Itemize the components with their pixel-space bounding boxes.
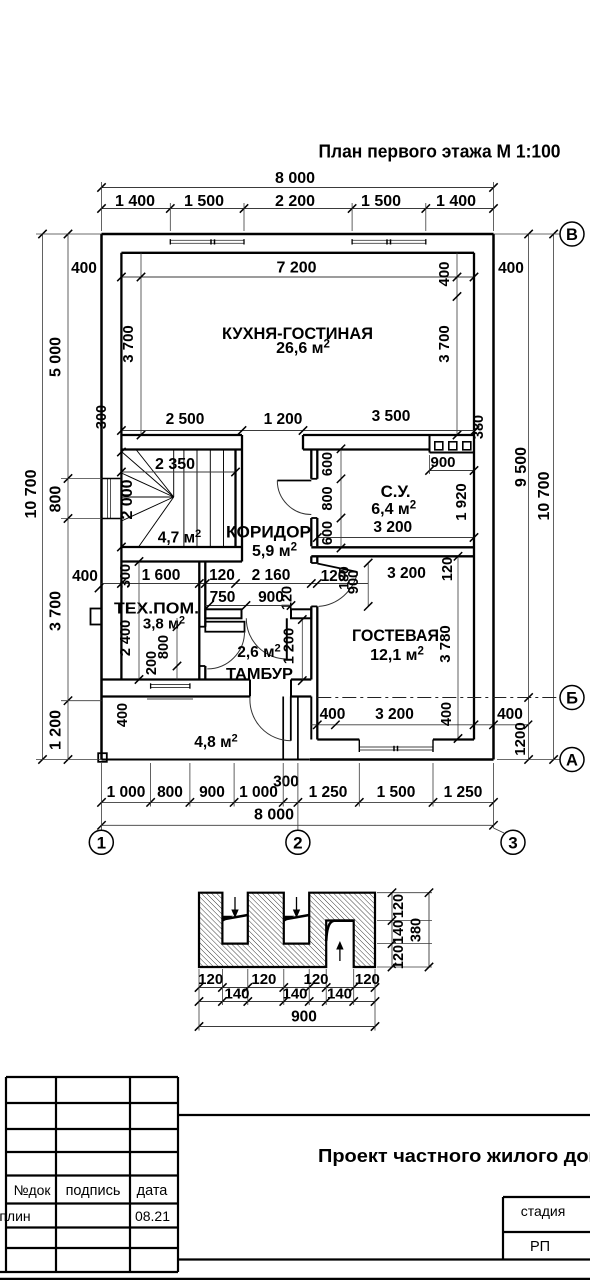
svg-text:900: 900 <box>199 784 225 801</box>
svg-text:400: 400 <box>320 706 346 723</box>
kitchen width dim 7200 <box>121 276 474 278</box>
tambour door swing arc <box>246 618 287 659</box>
vent square 3 <box>463 442 471 450</box>
svg-text:1 250: 1 250 <box>309 784 348 801</box>
window guest room (1500) <box>359 746 433 748</box>
porch corner column marker <box>98 753 107 762</box>
bottom wall under guest room <box>310 758 494 761</box>
outer left wall <box>100 234 103 760</box>
svg-text:120: 120 <box>391 945 407 969</box>
svg-text:1 000: 1 000 <box>107 784 146 801</box>
vent square 2 <box>449 442 457 450</box>
tambour top wall left piece <box>205 609 241 618</box>
svg-text:900: 900 <box>291 1009 317 1026</box>
svg-text:400: 400 <box>115 703 131 727</box>
svg-text:6,4 м2: 6,4 м2 <box>371 499 416 518</box>
svg-text:1 400: 1 400 <box>115 193 155 210</box>
detail dim 380 <box>428 893 430 967</box>
SU door swing arc <box>277 481 311 515</box>
svg-text:План первого этажа М 1:100: План первого этажа М 1:100 <box>319 142 561 162</box>
svg-text:180: 180 <box>336 566 352 590</box>
svg-text:300: 300 <box>118 564 134 588</box>
svg-text:дата: дата <box>137 1183 169 1199</box>
svg-text:600: 600 <box>320 452 336 476</box>
svg-text:1 250: 1 250 <box>444 784 483 801</box>
bottom chain 8000 <box>102 824 494 826</box>
right outer chain 10700 <box>553 234 555 760</box>
top extension lines <box>101 182 103 231</box>
svg-text:2: 2 <box>293 833 302 852</box>
axis circle 2 <box>286 830 310 854</box>
svg-text:380: 380 <box>409 918 425 942</box>
guest bottom chain 400/3200/400 <box>311 724 528 726</box>
partition below kitchen, right segment <box>303 434 430 436</box>
bottom axis extensions <box>101 807 103 831</box>
chain row 750/900 <box>205 605 291 607</box>
svg-text:120: 120 <box>391 894 407 918</box>
window top-left (1500) <box>170 239 244 241</box>
wall between corridor/tambour and SU/guest rooms <box>310 450 312 479</box>
svg-text:2 160: 2 160 <box>252 567 291 584</box>
svg-text:2 400: 2 400 <box>118 620 134 656</box>
svg-text:140: 140 <box>282 986 307 1003</box>
svg-text:750: 750 <box>210 589 236 606</box>
detail channel 1 duct liner and arrow <box>222 915 247 920</box>
svg-text:380: 380 <box>471 415 487 439</box>
svg-text:1 500: 1 500 <box>361 193 401 210</box>
svg-text:3 700: 3 700 <box>48 591 65 631</box>
svg-text:8 000: 8 000 <box>275 170 315 187</box>
detail right dims 120/140/120 <box>377 892 432 894</box>
svg-text:2,6 м2: 2,6 м2 <box>237 643 281 661</box>
svg-text:120: 120 <box>198 971 223 988</box>
SU door leaf <box>277 480 311 482</box>
axis line V <box>494 233 561 235</box>
svg-text:800: 800 <box>157 784 183 801</box>
svg-text:120: 120 <box>209 567 235 584</box>
left outer chain 10700 <box>42 234 44 760</box>
staircase treads <box>183 450 185 548</box>
outer top wall <box>102 233 494 236</box>
svg-text:1200: 1200 <box>512 722 529 755</box>
svg-text:1 600: 1 600 <box>142 567 181 584</box>
svg-text:1 500: 1 500 <box>377 784 416 801</box>
svg-text:10 700: 10 700 <box>23 469 40 518</box>
svg-text:1 200: 1 200 <box>264 411 303 428</box>
axis circle 1 <box>89 830 113 854</box>
detail dim rows bottom <box>199 987 375 989</box>
svg-text:А: А <box>566 752 578 770</box>
guest room door swing arc <box>319 572 358 606</box>
svg-text:стадия: стадия <box>521 1203 566 1219</box>
svg-text:300: 300 <box>94 405 110 429</box>
axis line A <box>497 759 561 761</box>
svg-text:120: 120 <box>251 971 276 988</box>
tech room partition (right wall) <box>198 562 200 680</box>
staircase winder rays <box>121 452 173 498</box>
partition below kitchen, left segment <box>121 434 242 436</box>
title block grid <box>6 1076 178 1078</box>
svg-text:400: 400 <box>439 702 455 726</box>
svg-text:400: 400 <box>436 261 453 286</box>
front entrance door swing arc <box>250 697 291 741</box>
svg-text:№док: №док <box>13 1182 51 1198</box>
svg-text:9 500: 9 500 <box>513 447 530 487</box>
svg-text:1 400: 1 400 <box>436 193 476 210</box>
svg-text:800: 800 <box>48 486 65 513</box>
svg-text:5,9 м2: 5,9 м2 <box>252 541 297 560</box>
tech room door leaf (open against wall) <box>205 622 244 632</box>
axis circle A <box>560 748 584 772</box>
svg-text:140: 140 <box>224 986 249 1003</box>
detail dim 900 <box>199 1026 375 1028</box>
svg-text:120: 120 <box>440 557 456 581</box>
kitchen height dims right <box>456 253 458 435</box>
svg-text:КОРИДОР: КОРИДОР <box>226 524 311 542</box>
tambour door leaf <box>286 618 288 659</box>
svg-text:2 000: 2 000 <box>119 479 136 519</box>
SU bottom partition <box>311 546 474 548</box>
right chain 9500/1200 <box>528 234 530 760</box>
svg-text:3 700: 3 700 <box>120 325 137 363</box>
svg-text:1: 1 <box>97 833 106 852</box>
porch outline <box>102 759 310 761</box>
window left wall (800) staircase <box>107 479 109 519</box>
axis circle B <box>560 686 584 710</box>
svg-text:1 200: 1 200 <box>48 710 65 750</box>
svg-text:3: 3 <box>508 833 517 852</box>
svg-text:200: 200 <box>144 651 160 675</box>
svg-text:08.21: 08.21 <box>135 1208 170 1224</box>
svg-text:1 920: 1 920 <box>453 483 470 521</box>
svg-text:3 200: 3 200 <box>387 565 426 582</box>
dim 900 under vent block <box>430 470 475 472</box>
top dim chain 8000 <box>102 187 494 189</box>
bottom extension lines <box>101 763 103 807</box>
left extension lines <box>36 233 102 235</box>
svg-text:800: 800 <box>320 486 336 510</box>
svg-text:3 500: 3 500 <box>372 408 411 425</box>
top dim chain 1400/1500/2200/1500/1400 <box>102 208 494 210</box>
axis circle V <box>560 222 584 246</box>
SU left wall chain 600/800/600 <box>340 449 342 548</box>
flue pilaster on left wall <box>91 609 102 625</box>
detail channel 2 duct liner and arrow <box>284 915 309 920</box>
stair dim 2000 <box>117 448 125 456</box>
svg-text:400: 400 <box>72 568 98 585</box>
svg-text:С.У.: С.У. <box>381 483 411 501</box>
svg-text:3 200: 3 200 <box>373 519 412 536</box>
svg-text:3 780: 3 780 <box>437 625 454 663</box>
vent block in wall (900x380) <box>430 434 475 436</box>
window tech room (800) <box>151 684 190 686</box>
svg-text:2 350: 2 350 <box>155 456 195 473</box>
svg-text:1 500: 1 500 <box>184 193 224 210</box>
axis line B (dash-dot) <box>317 697 560 699</box>
svg-text:900: 900 <box>258 589 284 606</box>
detail channel 3 duct liner and arrow <box>326 921 354 941</box>
chain 2500/1200/3500 above partition <box>121 430 475 432</box>
svg-text:В: В <box>566 226 578 244</box>
svg-text:3 200: 3 200 <box>375 706 414 723</box>
stair dim 2350 <box>121 471 235 473</box>
svg-text:4,8 м2: 4,8 м2 <box>194 733 238 751</box>
svg-text:2 500: 2 500 <box>166 411 205 428</box>
detail: hatched vent block 900x380 with 3 channels <box>199 893 375 967</box>
svg-text:РП: РП <box>530 1239 550 1255</box>
outer right wall <box>492 234 495 760</box>
svg-text:ТАМБУР: ТАМБУР <box>226 666 293 683</box>
svg-text:5 000: 5 000 <box>48 337 65 377</box>
svg-text:600: 600 <box>320 521 336 545</box>
svg-text:Б: Б <box>566 690 578 708</box>
tambour top wall right piece <box>291 609 311 618</box>
svg-text:900: 900 <box>430 454 455 471</box>
svg-text:140: 140 <box>391 920 407 944</box>
svg-text:400: 400 <box>71 260 97 277</box>
bottom wall of tech/tambour rooms <box>102 678 251 680</box>
tech room vertical dims <box>138 562 140 680</box>
bottom chain row 1000/800/900/1000/1250/1500/1250 <box>102 801 494 803</box>
front entrance door leaf <box>290 697 292 741</box>
chain row y583 <box>102 583 369 585</box>
svg-text:2 200: 2 200 <box>275 193 315 210</box>
svg-text:8 000: 8 000 <box>254 807 294 824</box>
svg-text:4,7 м2: 4,7 м2 <box>158 528 202 546</box>
svg-text:3,8 м2: 3,8 м2 <box>143 614 185 632</box>
svg-text:10 700: 10 700 <box>536 471 553 520</box>
svg-text:400: 400 <box>497 706 523 723</box>
guest room door leaf <box>317 564 357 573</box>
svg-text:3 700: 3 700 <box>436 325 453 363</box>
svg-text:плин: плин <box>0 1208 31 1224</box>
left inner chain 5000/800/3700/1200 <box>67 234 69 760</box>
svg-text:7 200: 7 200 <box>276 260 316 277</box>
svg-text:12,1 м2: 12,1 м2 <box>370 645 424 664</box>
svg-text:300: 300 <box>273 774 299 791</box>
guest room dims <box>457 556 459 738</box>
kitchen height dims left <box>140 253 142 435</box>
svg-text:140: 140 <box>327 986 352 1003</box>
stage cell <box>503 1196 590 1198</box>
staircase partition <box>234 450 236 548</box>
svg-text:подпись: подпись <box>66 1183 121 1199</box>
svg-text:26,6 м2: 26,6 м2 <box>276 338 330 357</box>
tambour height dim 1200 <box>301 620 303 681</box>
svg-text:ГОСТЕВАЯ: ГОСТЕВАЯ <box>352 627 439 645</box>
svg-text:400: 400 <box>498 260 524 277</box>
svg-text:1 200: 1 200 <box>282 628 298 664</box>
window top-right (1500) <box>352 239 426 241</box>
svg-text:120: 120 <box>355 971 380 988</box>
tech room door swing arc <box>207 632 244 669</box>
axis circle 3 <box>501 830 525 854</box>
staircase bottom wall <box>121 546 242 548</box>
svg-text:Проект частного жилого дома: Проект частного жилого дома <box>318 1146 590 1166</box>
vent square 1 <box>435 442 443 450</box>
